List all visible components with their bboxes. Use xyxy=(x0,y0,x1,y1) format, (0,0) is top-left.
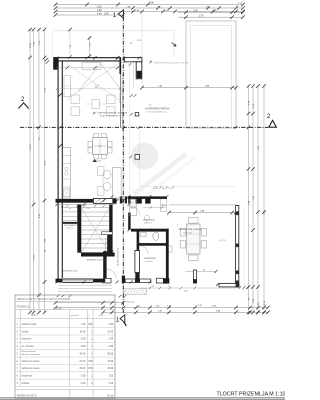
svg-text:3.80: 3.80 xyxy=(81,346,86,348)
svg-text:natkriveni ulaz: natkriveni ulaz xyxy=(22,323,38,326)
svg-text:3.90: 3.90 xyxy=(109,324,114,326)
svg-text:3.50 m2: 3.50 m2 xyxy=(67,228,74,230)
svg-text:27.00: 27.00 xyxy=(79,361,86,363)
svg-text:ULAZNI PROSTOR: ULAZNI PROSTOR xyxy=(116,247,119,266)
svg-text:dnevni boravak,: dnevni boravak, xyxy=(22,350,37,353)
svg-text:14.35: 14.35 xyxy=(34,254,36,260)
svg-text:0.50: 0.50 xyxy=(88,368,93,370)
svg-text:10.90: 10.90 xyxy=(107,331,114,333)
svg-text:15.00: 15.00 xyxy=(56,309,62,311)
svg-text:3.40: 3.40 xyxy=(97,10,102,12)
svg-text:wc i pisoara: wc i pisoara xyxy=(22,345,35,348)
svg-text:PRIZEMLJE: PRIZEMLJE xyxy=(17,306,30,308)
svg-text:PRIZEMLJE ±0.00: PRIZEMLJE ±0.00 xyxy=(62,270,78,272)
svg-text:75: 75 xyxy=(169,188,171,190)
svg-text:3.10: 3.10 xyxy=(97,6,102,8)
svg-text:10.90: 10.90 xyxy=(79,331,86,333)
svg-text:3.50: 3.50 xyxy=(109,376,114,378)
svg-text:4.05: 4.05 xyxy=(95,87,99,89)
svg-text:pov.(m2): pov.(m2) xyxy=(71,315,80,317)
svg-text:9.00: 9.00 xyxy=(149,2,154,5)
svg-text:natkrivena terasa: natkrivena terasa xyxy=(22,367,41,370)
svg-text:20.40 m2: 20.40 m2 xyxy=(183,233,193,235)
svg-text:36.00: 36.00 xyxy=(107,353,114,355)
svg-text:K07(15/34): K07(15/34) xyxy=(125,302,135,304)
svg-text:3.80: 3.80 xyxy=(109,346,114,348)
svg-text:4.40: 4.40 xyxy=(97,13,102,15)
svg-text:naziv: naziv xyxy=(31,315,37,317)
svg-text:NATKRIVENA TERASA: NATKRIVENA TERASA xyxy=(179,228,203,231)
svg-text:3.00: 3.00 xyxy=(193,11,198,13)
svg-text:3.90: 3.90 xyxy=(109,339,114,341)
svg-text:2.40: 2.40 xyxy=(104,13,109,15)
svg-text:strojarnica: strojarnica xyxy=(22,375,33,378)
svg-text:I BLAGOVAONA 36.00 m2: I BLAGOVAONA 36.00 m2 xyxy=(99,114,125,117)
svg-text:natkrivena terasa: natkrivena terasa xyxy=(22,360,41,363)
svg-text:10.95: 10.95 xyxy=(30,42,32,48)
svg-text:5.40: 5.40 xyxy=(109,383,114,385)
svg-text:36.00: 36.00 xyxy=(79,353,86,355)
svg-text:STROJARNICA: STROJARNICA xyxy=(64,224,79,227)
svg-text:stubište: stubište xyxy=(22,382,31,385)
svg-text:5.40 m2: 5.40 m2 xyxy=(145,261,153,263)
svg-text:0.50: 0.50 xyxy=(88,324,93,326)
svg-text:PRIZEMLJE NETO: PRIZEMLJE NETO xyxy=(17,395,37,397)
svg-text:OBRAČUN NETO KORISNIH I BRUTO: OBRAČUN NETO KORISNIH I BRUTO POVRŠINE xyxy=(17,298,71,301)
svg-text:40: 40 xyxy=(162,188,164,190)
svg-text:SPREMIŠTE: SPREMIŠTE xyxy=(144,257,157,260)
svg-text:7.80: 7.80 xyxy=(81,324,86,326)
svg-text:DNEVNI BORAVAK, KUHINJA: DNEVNI BORAVAK, KUHINJA xyxy=(98,111,128,114)
svg-text:10.20: 10.20 xyxy=(107,368,114,370)
svg-text:75: 75 xyxy=(168,286,170,288)
svg-text:13.50: 13.50 xyxy=(107,361,114,363)
svg-text:27.00 m2 (33.80 m2): 27.00 m2 (33.80 m2) xyxy=(146,112,167,114)
svg-text:NADSTREŠNICA (OBRIS KROVA): NADSTREŠNICA (OBRIS KROVA) xyxy=(155,62,189,65)
svg-text:90: 90 xyxy=(152,286,154,288)
svg-text:3.50: 3.50 xyxy=(81,376,86,378)
svg-text:2.64: 2.64 xyxy=(184,291,188,293)
svg-text:90: 90 xyxy=(156,188,158,190)
svg-text:3.80 m2: 3.80 m2 xyxy=(144,223,152,225)
svg-text:18.10: 18.10 xyxy=(30,144,32,150)
svg-text:3.90: 3.90 xyxy=(81,339,86,341)
svg-text:stepenice: stepenice xyxy=(22,338,33,341)
svg-text:40: 40 xyxy=(203,270,205,272)
svg-text:92.10: 92.10 xyxy=(107,395,114,397)
svg-text:0.50: 0.50 xyxy=(88,361,93,363)
svg-text:kuhinja i blagovaona: kuhinja i blagovaona xyxy=(22,354,42,356)
svg-text:20.40: 20.40 xyxy=(79,368,86,370)
svg-text:STUBIŠTE 5.40 m2: STUBIŠTE 5.40 m2 xyxy=(87,258,106,261)
svg-text:2.10: 2.10 xyxy=(86,208,90,210)
svg-text:(+0.75): (+0.75) xyxy=(219,240,226,242)
svg-text:±0.00: ±0.00 xyxy=(96,161,102,163)
svg-text:3.70: 3.70 xyxy=(199,16,204,18)
svg-text:NATKRIVENA TERASA: NATKRIVENA TERASA xyxy=(145,108,170,111)
svg-text:TLOCRT PRIZEMLJA M 1:100: TLOCRT PRIZEMLJA M 1:100 xyxy=(217,392,286,398)
svg-text:90: 90 xyxy=(69,208,71,210)
svg-text:PRAONICA: PRAONICA xyxy=(143,219,155,222)
svg-text:hodnik: hodnik xyxy=(22,331,30,333)
svg-text:5.40: 5.40 xyxy=(81,383,86,385)
